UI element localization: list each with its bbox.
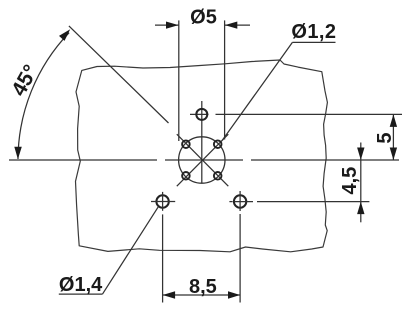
circle Ø5 (bolt circle) bbox=[179, 137, 225, 183]
svg-text:Ø5: Ø5 bbox=[190, 6, 217, 28]
hole NE Ø1,2 bbox=[214, 140, 222, 148]
hole bottom-right Ø1,4 bbox=[234, 195, 246, 207]
dimension 8,5 (bottom, horizontal) bbox=[163, 294, 241, 296]
svg-text:8,5: 8,5 bbox=[189, 276, 217, 298]
centerline of top hole / extension line (y=114.4) bbox=[190, 113, 402, 115]
svg-text:Ø1,2: Ø1,2 bbox=[291, 21, 336, 43]
svg-text:5: 5 bbox=[374, 132, 396, 143]
hole SW Ø1,2 bbox=[182, 172, 190, 180]
diagonal centerline B (top-right to bottom-left) bbox=[177, 134, 229, 186]
centerlines of bottom-right hole / extension line 3 bbox=[229, 191, 369, 303]
leader Ø1,4 bbox=[59, 207, 158, 294]
hole top Ø1,2 bbox=[196, 109, 207, 120]
hole SE Ø1,2 bbox=[214, 172, 222, 180]
horizontal centerline through pattern center bbox=[9, 159, 399, 161]
svg-text:Ø1,4: Ø1,4 bbox=[59, 274, 103, 296]
45-degree construction line bbox=[69, 26, 169, 123]
diagonal centerline A (top-left to bottom-right) bbox=[177, 134, 229, 186]
plate outline (broken-edge sheet) bbox=[76, 60, 328, 252]
hole bottom-left Ø1,4 bbox=[156, 195, 168, 207]
leader Ø1,2 bbox=[222, 42, 335, 140]
svg-text:4,5: 4,5 bbox=[339, 167, 361, 195]
dimension 5 (right, vertical) bbox=[392, 114, 394, 160]
dimension Ø5 extension lines bbox=[179, 20, 225, 141]
hole NW Ø1,2 bbox=[182, 140, 190, 148]
dimension Ø5 dimension line with outside arrows bbox=[155, 24, 250, 26]
centerlines of bottom-left hole bbox=[151, 192, 175, 303]
angular dimension arc 45 degrees bbox=[18, 33, 69, 159]
dimension 4,5 (right, vertical, outside arrows) bbox=[360, 143, 362, 223]
vertical centerline through top hole and center bbox=[201, 101, 203, 183]
